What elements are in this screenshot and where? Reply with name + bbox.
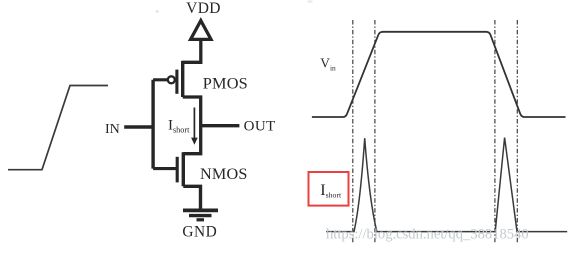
svg-text:VDD: VDD bbox=[186, 0, 221, 17]
svg-text:NMOS: NMOS bbox=[200, 165, 248, 183]
wire PMOS gate stub bbox=[153, 78, 168, 81]
wire VDD stem bbox=[183, 41, 201, 62]
wire OUT trunk to NMOS drain bbox=[183, 126, 200, 154]
dashdot timing line t3 bbox=[494, 20, 496, 244]
ground bbox=[183, 210, 218, 219]
Ishort waveform bbox=[326, 138, 567, 232]
current arrow Ishort bbox=[191, 108, 198, 145]
input ramp waveform bbox=[8, 86, 108, 170]
svg-text:GND: GND bbox=[182, 223, 217, 240]
transistor U1 PMOS bbox=[168, 61, 183, 97]
transistor U2 NMOS bbox=[177, 152, 183, 186]
svg-text:IN: IN bbox=[105, 122, 120, 137]
wire IN lead bbox=[124, 125, 153, 128]
svg-text:https://blog.csdn.net/qq_38818: https://blog.csdn.net/qq_38818540 bbox=[326, 226, 529, 242]
svg-text:Ishort: Ishort bbox=[168, 118, 190, 135]
wire PMOS drain to OUT trunk bbox=[183, 97, 201, 126]
Vin waveform bbox=[312, 32, 566, 117]
dashdot timing line t2 bbox=[374, 20, 376, 244]
red highlight box bbox=[309, 172, 349, 206]
svg-text:OUT: OUT bbox=[244, 119, 276, 135]
VDD supply arrow bbox=[191, 21, 211, 40]
dashdot timing line t4 bbox=[516, 20, 518, 244]
svg-text:PMOS: PMOS bbox=[203, 74, 248, 93]
svg-text:Ishort: Ishort bbox=[320, 180, 342, 200]
dashdot timing line t1 bbox=[352, 20, 354, 244]
wire NMOS source to ground bbox=[183, 186, 200, 208]
svg-text:Vin: Vin bbox=[320, 56, 336, 73]
wire OUT lead bbox=[201, 124, 240, 127]
wire NMOS gate stub bbox=[153, 167, 176, 170]
wire gate trunk vertical bbox=[151, 80, 154, 169]
